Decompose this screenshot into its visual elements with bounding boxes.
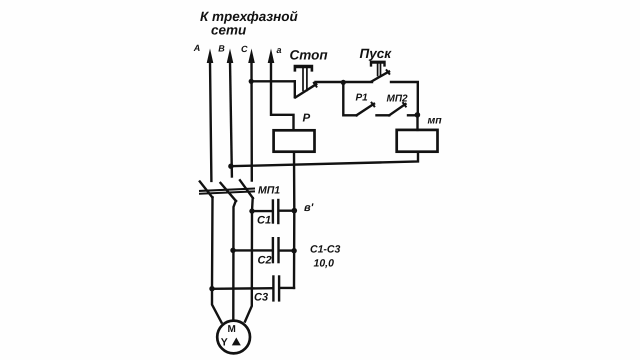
- svg-text:сети: сети: [211, 23, 247, 38]
- tie bar МП1: [200, 189, 254, 194]
- wire: phase С lower lead: [245, 198, 253, 321]
- wire: Пуск left lead: [343, 81, 372, 83]
- wire: phase а tap with arrow to coil Р: [268, 49, 294, 131]
- wire: Стоп to Пуск junction: [316, 81, 344, 83]
- wire: between Р1 and МП2: [377, 114, 390, 116]
- wire: МП bottom lead to return wire: [231, 152, 418, 167]
- svg-text:Y: Y: [221, 337, 228, 349]
- coil МП lead: [416, 115, 418, 130]
- svg-text:С3: С3: [254, 291, 268, 303]
- wire: capacitor common line: [293, 211, 296, 288]
- node: С2 right junction on common line: [291, 248, 296, 253]
- button Стоп (NC) plunger: [294, 65, 314, 91]
- wire: Пуск right lead down to МП: [391, 82, 418, 115]
- contactor МП1 pole 2 blade: [221, 183, 237, 201]
- wire: branch down to Р1: [343, 82, 356, 115]
- button Пуск (NO) contact blade: [372, 70, 390, 81]
- node в': [292, 208, 298, 214]
- wire: phase А lower lead: [212, 197, 222, 322]
- svg-text:а: а: [277, 45, 282, 55]
- node: С3 left junction on phase А: [209, 286, 214, 291]
- svg-text:С: С: [241, 44, 248, 54]
- svg-text:мп: мп: [428, 114, 443, 126]
- svg-text:Р: Р: [303, 113, 311, 125]
- motor М circle: [217, 321, 250, 354]
- wire: phase А vertical with arrow: [207, 49, 214, 181]
- svg-text:В: В: [218, 44, 225, 54]
- capacitor С3: [212, 277, 294, 301]
- node: С1 left junction on phase С: [249, 208, 254, 213]
- svg-text:С2: С2: [258, 255, 272, 267]
- svg-text:С1: С1: [257, 215, 271, 227]
- svg-text:С1-С3: С1-С3: [310, 243, 341, 255]
- node: junction at МП coil: [415, 112, 421, 118]
- wire: МП2 to junction: [408, 114, 417, 116]
- node: junction on phase В (return wire): [228, 164, 233, 169]
- wire: phase С vertical with arrow: [248, 49, 255, 181]
- svg-text:М: М: [228, 324, 236, 335]
- svg-text:А: А: [193, 43, 201, 53]
- svg-text:Пуск: Пуск: [360, 46, 393, 61]
- capacitor С1: [252, 200, 294, 223]
- svg-text:Р1: Р1: [356, 93, 369, 104]
- svg-text:МП1: МП1: [258, 184, 280, 196]
- contactor МП1 pole 3 blade: [240, 180, 253, 198]
- node: junction Стоп/Пуск branch: [341, 80, 346, 85]
- label Δ (delta, filled): [232, 338, 241, 346]
- svg-text:МП2: МП2: [387, 94, 409, 105]
- svg-text:в': в': [304, 202, 314, 214]
- label: К трехфазной сети: [200, 9, 299, 38]
- coil Р rectangle: [274, 130, 315, 151]
- svg-text:10,0: 10,0: [314, 258, 335, 270]
- button Пуск (NO) plunger: [370, 61, 386, 76]
- capacitor С2: [233, 238, 294, 262]
- node: junction on phase С: [249, 79, 254, 84]
- contact Р1 (NO) blade: [357, 103, 375, 116]
- contactor МП1 pole 1 blade: [200, 182, 213, 198]
- svg-text:Стоп: Стоп: [290, 47, 329, 62]
- button Стоп (NC) contact blade: [295, 81, 317, 97]
- coil МП rectangle: [397, 130, 438, 152]
- contact МП2 (NO) blade: [389, 103, 406, 115]
- wire: phase В vertical with arrow: [227, 49, 234, 177]
- wire: Р bottom lead down to node в': [293, 152, 296, 211]
- wire: phase В lower lead: [233, 201, 236, 321]
- wire: control line from С to Стоп: [251, 80, 295, 82]
- node: С2 left junction on phase В: [230, 248, 235, 253]
